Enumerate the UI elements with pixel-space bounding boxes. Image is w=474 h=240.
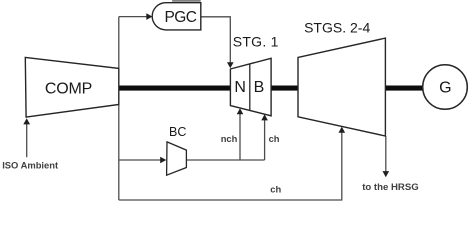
svg-text:COMP: COMP	[45, 80, 92, 97]
arrowhead ch into STGS.2-4	[339, 127, 346, 133]
combustor PGC	[152, 3, 201, 30]
wire: ch riser	[264, 120, 266, 160]
wire: trunk from PGC feed corner down to bottom header	[119, 17, 148, 200]
compressor COMP	[25, 57, 119, 117]
shaft	[119, 86, 423, 91]
arrowhead ISO Ambient into COMP	[23, 118, 30, 124]
svg-text:ISO Ambient: ISO Ambient	[2, 159, 58, 170]
divider between N and B	[249, 64, 251, 111]
svg-text:G: G	[439, 79, 451, 96]
arrowhead into STG.1 top	[227, 62, 234, 68]
generator G	[423, 65, 468, 110]
wire: to the HRSG drop	[385, 136, 387, 172]
arrowhead nch into N	[237, 108, 244, 114]
turbine stage 1 block N|B	[230, 58, 271, 116]
booster compressor BC	[167, 142, 187, 175]
svg-text:to the HRSG: to the HRSG	[362, 182, 419, 193]
turbine STGS. 2-4	[298, 38, 385, 136]
svg-text:ch: ch	[270, 183, 281, 194]
arrowhead into PGC	[146, 13, 152, 20]
wire: ISO Ambient inlet riser	[26, 124, 28, 157]
svg-text:N: N	[234, 79, 246, 96]
wire: PGC outlet elbow down to STG.1 N inlet	[201, 17, 231, 63]
svg-text:PGC: PGC	[165, 9, 197, 26]
arrowhead into BC	[160, 157, 166, 164]
svg-text:B: B	[254, 79, 265, 96]
crop remnant bar	[172, 0, 201, 2]
svg-text:BC: BC	[169, 125, 186, 139]
arrowhead to the HRSG	[383, 171, 390, 177]
svg-text:nch: nch	[221, 133, 238, 144]
wire: bottom ch header and riser to STGS.2-4	[119, 132, 342, 200]
wire: BC outlet run	[186, 159, 264, 161]
wire: nch riser	[239, 114, 241, 160]
svg-text:ch: ch	[269, 133, 280, 144]
svg-text:STG. 1: STG. 1	[233, 33, 279, 49]
svg-text:STGS. 2-4: STGS. 2-4	[304, 20, 370, 36]
arrowhead ch into B	[261, 114, 268, 120]
wire: BC feed	[119, 159, 162, 161]
